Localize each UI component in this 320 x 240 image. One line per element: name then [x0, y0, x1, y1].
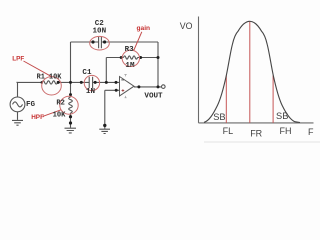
- svg-text:FL: FL: [223, 126, 234, 136]
- svg-text:FH: FH: [280, 126, 292, 136]
- svg-text:HPF: HPF: [31, 114, 44, 121]
- svg-text:C1: C1: [82, 69, 92, 77]
- svg-text:10N: 10N: [93, 27, 107, 35]
- svg-text:VO: VO: [180, 21, 193, 31]
- svg-text:1M: 1M: [125, 62, 135, 70]
- svg-text:10K: 10K: [53, 112, 67, 120]
- svg-text:R2: R2: [56, 100, 65, 108]
- svg-text:SB: SB: [276, 111, 288, 121]
- svg-text:SB: SB: [213, 112, 225, 122]
- svg-text:FR: FR: [250, 128, 262, 138]
- svg-text:FG: FG: [26, 101, 36, 109]
- svg-text:LPF: LPF: [12, 55, 24, 62]
- svg-text:R3: R3: [125, 46, 135, 54]
- svg-text:1N: 1N: [86, 88, 96, 96]
- svg-text:gain: gain: [137, 25, 151, 32]
- svg-text:F: F: [308, 127, 314, 137]
- svg-text:VOUT: VOUT: [144, 92, 163, 100]
- svg-text:R1 10K: R1 10K: [37, 73, 63, 81]
